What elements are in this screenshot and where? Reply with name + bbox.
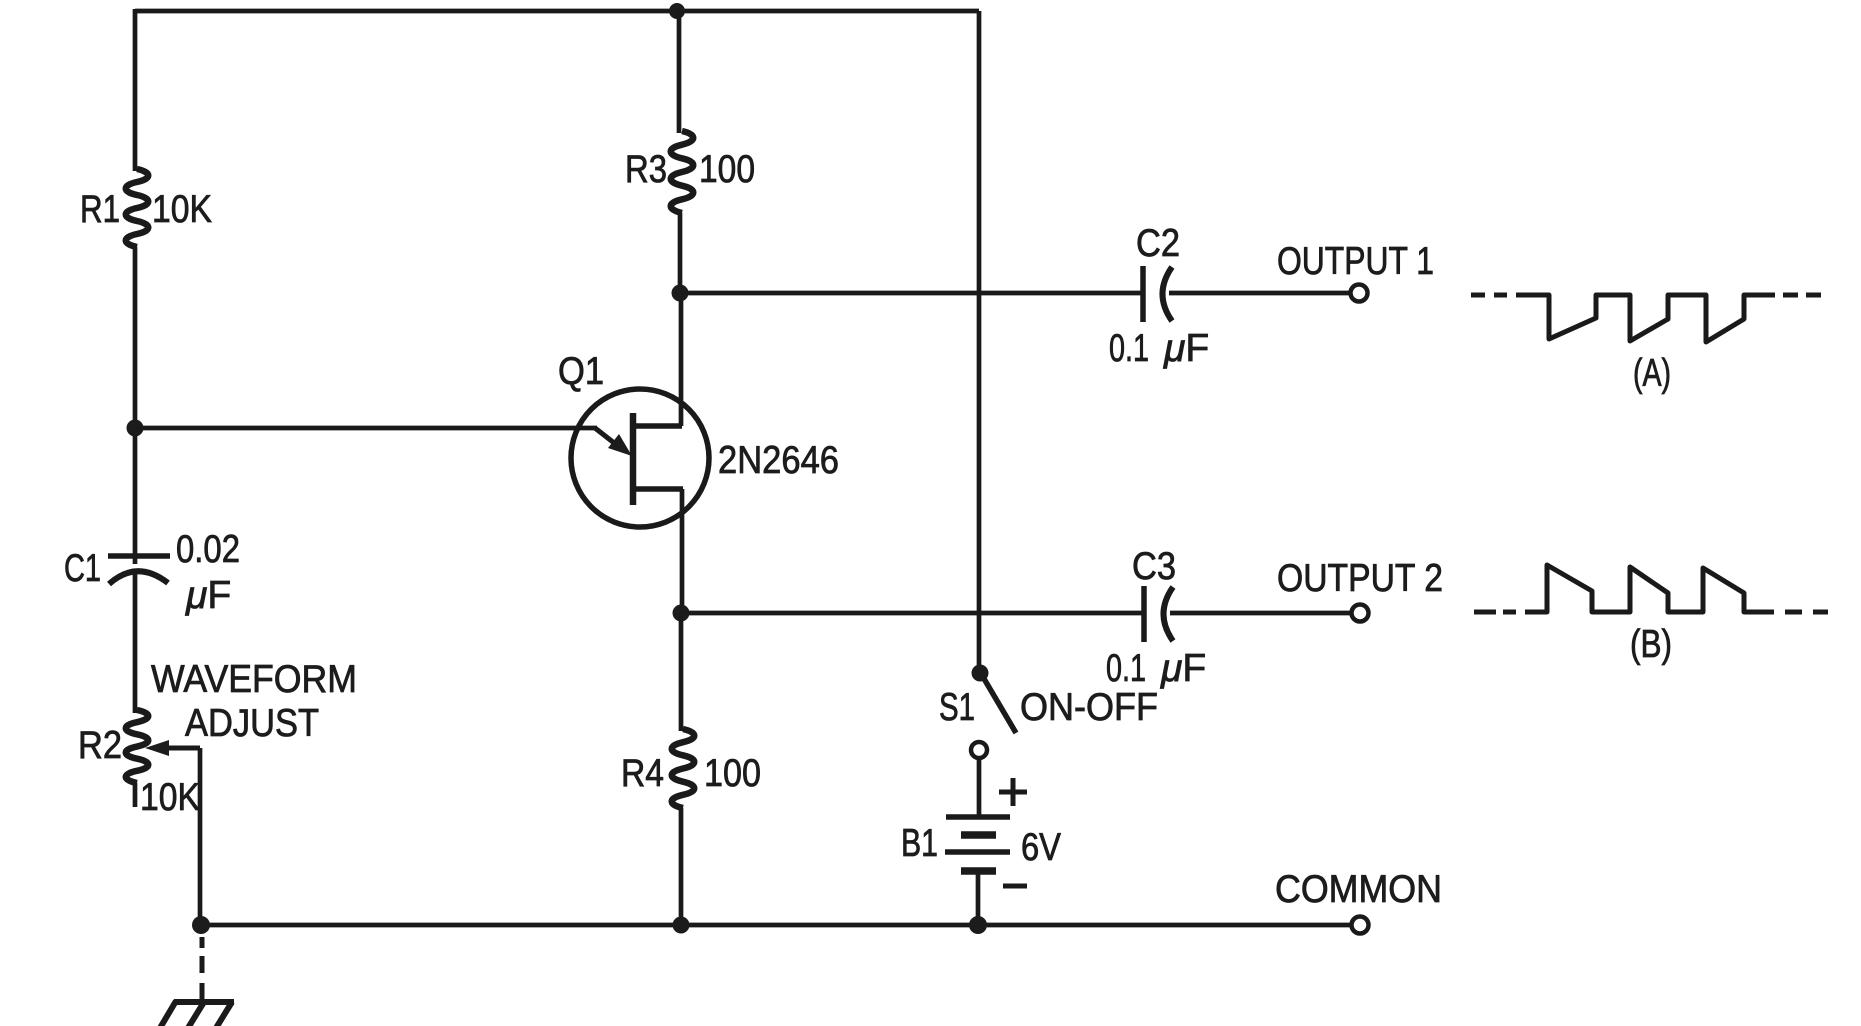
svg-text:R4: R4 [621, 752, 664, 795]
wire right vertical (top bus to S1) [977, 11, 982, 674]
wire dashed ground stub [200, 937, 205, 1003]
node top junction dot [669, 3, 685, 19]
svg-text:C1: C1 [64, 547, 101, 590]
wire output2 right of C3 [1170, 611, 1351, 616]
svg-text:100: 100 [699, 148, 755, 191]
terminal COMMON [1352, 917, 1369, 934]
svg-text:100: 100 [704, 752, 761, 795]
wire output2 left of C3 [681, 611, 1144, 616]
wire R2 bottom stub [133, 783, 138, 807]
capacitor C3 [1144, 586, 1173, 642]
svg-text:S1: S1 [939, 686, 975, 729]
wire top bus [135, 9, 979, 14]
svg-text:ON-OFF: ON-OFF [1020, 686, 1158, 729]
svg-text:2N2646: 2N2646 [718, 439, 839, 482]
svg-text:(A): (A) [1633, 352, 1671, 395]
resistor R1 [126, 169, 149, 247]
node R4 bottom junction dot [673, 917, 690, 934]
svg-text:B1: B1 [901, 822, 938, 865]
waveform B trace [1525, 565, 1774, 612]
wire middle vertical top (top bus to R3) [677, 11, 682, 133]
wire R4 to bottom bus [679, 808, 684, 925]
switch S1 [971, 665, 1016, 759]
svg-text:WAVEFORM: WAVEFORM [151, 658, 357, 701]
svg-text:μF: μF [1160, 647, 1206, 690]
svg-text:0.1: 0.1 [1106, 647, 1146, 690]
svg-text:R2: R2 [78, 724, 122, 767]
waveform B dashes left [1474, 610, 1516, 615]
resistor R4 [672, 729, 695, 808]
wire left vertical (R1 to C1) [133, 247, 138, 564]
wire output2 node to R4 [679, 613, 684, 731]
svg-text:Q1: Q1 [558, 350, 604, 393]
terminal OUTPUT 1 [1351, 285, 1368, 302]
svg-text:6V: 6V [1021, 826, 1061, 869]
wiper arrow of R2 [145, 740, 200, 756]
svg-text:OUTPUT 2: OUTPUT 2 [1277, 557, 1443, 600]
battery B1 [945, 817, 1010, 871]
wire emitter horizontal [135, 426, 597, 431]
svg-text:R3: R3 [625, 148, 667, 191]
node output1 junction dot [672, 285, 689, 302]
svg-text:C3: C3 [1132, 545, 1176, 588]
svg-text:C2: C2 [1136, 222, 1180, 265]
svg-text:R1: R1 [80, 188, 120, 231]
wire bottom bus [200, 923, 1351, 928]
svg-text:(B): (B) [1630, 623, 1672, 666]
battery plus sign [999, 778, 1027, 806]
wire R3 to output1 node [678, 213, 683, 293]
wire base2 vertical (R3 node down into Q1) [679, 292, 684, 426]
wire output1 right of C2 [1169, 291, 1350, 296]
svg-text:10K: 10K [152, 188, 212, 231]
terminal OUTPUT 2 [1352, 605, 1369, 622]
wire output1 left of C2 [680, 291, 1143, 296]
transistor Q1 2N2646 [571, 389, 709, 527]
wire left vertical upper (top bus to R1) [133, 9, 138, 171]
svg-text:μF: μF [185, 574, 231, 617]
node bottom-left junction dot [192, 916, 210, 934]
capacitor C2 [1143, 266, 1172, 322]
svg-text:0.02: 0.02 [176, 528, 240, 571]
svg-text:10K: 10K [140, 776, 200, 819]
resistor R3 [671, 131, 694, 213]
svg-text:OUTPUT 1: OUTPUT 1 [1277, 240, 1434, 283]
potentiometer R2 [126, 710, 149, 783]
wire base1 vertical (Q1 down to output2 node) [680, 489, 685, 613]
node battery bottom junction dot [969, 916, 987, 934]
waveform A trace [1516, 295, 1775, 342]
waveform B dashes right [1785, 610, 1828, 615]
svg-text:COMMON: COMMON [1275, 868, 1442, 911]
ground chassis symbol [160, 1001, 234, 1026]
waveform A dashes left [1471, 293, 1507, 298]
node output2 junction dot [673, 605, 690, 622]
wire battery to bottom bus [976, 874, 981, 925]
capacitor C1 [108, 556, 170, 584]
wire wiper down to bottom bus [198, 748, 203, 925]
node emitter junction dot [127, 420, 144, 437]
svg-text:ADJUST: ADJUST [185, 702, 319, 745]
svg-text:μF: μF [1163, 327, 1209, 370]
waveform A dashes right [1783, 293, 1821, 298]
battery minus sign [1003, 884, 1027, 889]
wire S1 to battery [977, 758, 982, 819]
svg-text:0.1: 0.1 [1109, 327, 1149, 370]
wire left vertical (C1 to R2) [133, 571, 138, 713]
